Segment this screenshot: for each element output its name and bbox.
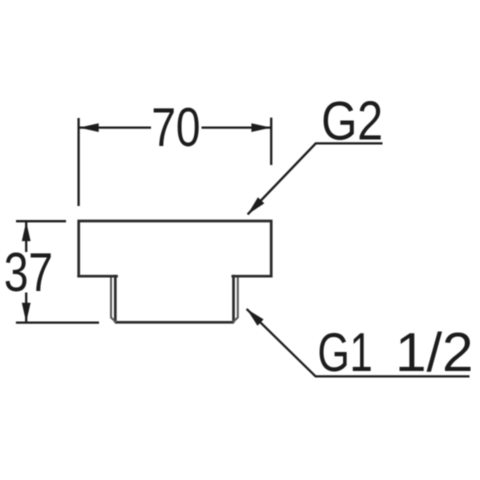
- svg-text:1/2: 1/2: [395, 322, 473, 383]
- svg-text:70: 70: [151, 97, 200, 159]
- svg-text:37: 37: [4, 242, 53, 304]
- svg-text:G2: G2: [321, 90, 383, 151]
- svg-text:G1: G1: [317, 323, 372, 384]
